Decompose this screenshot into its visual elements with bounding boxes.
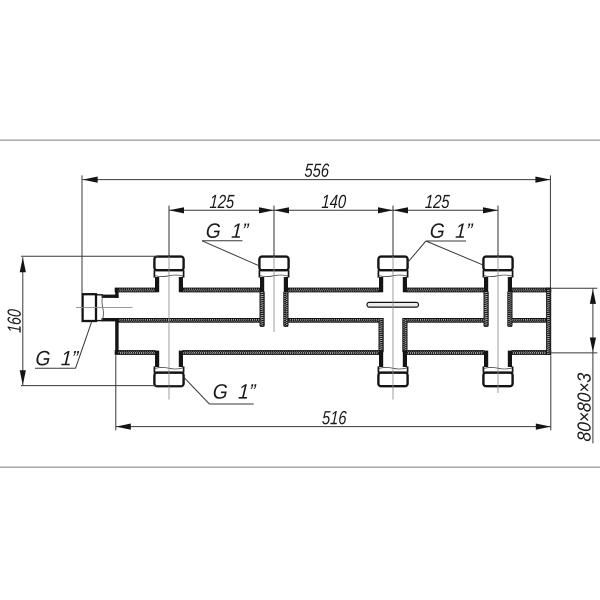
port 2 tube through upper chamber bbox=[260, 291, 288, 326]
extension line port 3 bbox=[392, 206, 394, 257]
dimension text 125 left bbox=[210, 195, 235, 208]
dimension 160 line bbox=[22, 257, 24, 385]
body left wall upper part bbox=[115, 288, 118, 298]
top wall segment B bbox=[183, 288, 260, 292]
chain arrow at port 1 bbox=[169, 207, 184, 213]
bottom wall segment D bbox=[512, 351, 551, 355]
label G1 bottom underline bbox=[209, 403, 253, 405]
chain arrow at port 4 bbox=[483, 207, 498, 213]
port 1 top tube wall bbox=[155, 277, 183, 292]
side port thread section outline bbox=[96, 295, 104, 321]
label G1 top-right underline bbox=[426, 240, 466, 242]
port 3 bottom tube stub bbox=[379, 351, 407, 367]
dimension 160 text bbox=[7, 309, 20, 333]
dimension 160 bottom extension bbox=[21, 385, 183, 387]
bottom wall segment C bbox=[407, 351, 484, 355]
port 4 top coupling cap bbox=[483, 257, 512, 278]
centerline port 4 bbox=[497, 256, 499, 393]
top wall segment D bbox=[407, 288, 484, 292]
dimension 80x80x3 top arrow bbox=[590, 289, 596, 304]
label G1 top-right leader to port 4 bbox=[426, 241, 483, 265]
port 2 top tube stub bbox=[260, 277, 288, 292]
dimension 556 line bbox=[83, 179, 551, 181]
label G1 left underline bbox=[35, 367, 76, 369]
port 3 bottom coupling cap bbox=[378, 366, 407, 386]
chain arrows at port 3 bbox=[378, 207, 393, 213]
label G1 left text bbox=[36, 351, 79, 366]
middle partition segment D bbox=[512, 319, 547, 323]
page divider bottom bbox=[0, 467, 600, 468]
dimension 516 text bbox=[322, 411, 347, 424]
port 3 tube through lower chamber bbox=[379, 319, 407, 352]
bottom wall segment B bbox=[183, 351, 379, 355]
label G1 bottom leader bbox=[184, 377, 210, 404]
page divider top bbox=[0, 140, 600, 141]
dimension 160 top arrow bbox=[20, 257, 26, 272]
chain dimension line bbox=[169, 209, 498, 211]
port 1 bottom coupling cap bbox=[154, 366, 183, 386]
top wall segment C bbox=[288, 288, 379, 292]
dimension 80x80x3 bottom arrow bbox=[590, 338, 596, 353]
dimension 160 top extension bbox=[21, 255, 159, 257]
dimension 556 right arrow bbox=[535, 177, 550, 183]
dimension 556 right extension bbox=[549, 175, 551, 287]
label G1 bottom text bbox=[213, 384, 256, 399]
label G1 top-left underline bbox=[202, 240, 243, 242]
bottom wall segment A bbox=[115, 351, 155, 355]
port 4 bottom tube wall bbox=[484, 351, 512, 367]
baffle plate in upper chamber at port 3 bbox=[367, 302, 419, 307]
dimension 516 right arrow bbox=[536, 424, 551, 430]
dimension text 140 bbox=[322, 195, 347, 208]
extension line port 4 bbox=[497, 206, 499, 257]
dimension 80x80x3 line bbox=[592, 289, 594, 444]
dimension 556 left extension bbox=[81, 175, 83, 293]
side port pipe bottom wall bbox=[102, 318, 119, 321]
extension line port 2 bbox=[273, 206, 275, 257]
dimension 80x80x3 top extension bbox=[551, 287, 597, 289]
dimension 160 bottom arrow bbox=[20, 370, 26, 385]
side port pipe top wall bbox=[102, 295, 119, 298]
port 2 top coupling cap bbox=[259, 257, 288, 278]
middle partition segment C bbox=[407, 319, 484, 323]
dimension 516 left extension bbox=[115, 355, 117, 430]
top wall segment A bbox=[115, 288, 155, 292]
centerline port 3 bbox=[392, 256, 394, 399]
centerline port 1 bbox=[168, 256, 170, 399]
label G1 top-left leader bbox=[202, 241, 258, 265]
dimension 516 right extension bbox=[550, 355, 552, 430]
dimension 556 text bbox=[305, 164, 330, 177]
chain arrows at port 2 bbox=[259, 207, 274, 213]
dimension 556 left arrow bbox=[83, 177, 98, 183]
port 3 top tube wall bbox=[379, 277, 407, 292]
dimension 516 line bbox=[116, 426, 551, 428]
dimension 516 left arrow bbox=[116, 424, 131, 430]
label G1 top-right text bbox=[430, 223, 473, 238]
port 1 top coupling cap bbox=[154, 257, 183, 278]
label G1 top-right leader to port 3 bbox=[408, 241, 426, 263]
centerline side port G1 bbox=[76, 306, 133, 308]
centerline port 2 bbox=[273, 256, 275, 332]
port 4 tube through upper chamber bbox=[484, 291, 512, 326]
body left wall lower part bbox=[115, 318, 118, 354]
port 3 top coupling cap bbox=[378, 257, 407, 278]
extension line port 1 bbox=[168, 206, 170, 257]
middle partition segment B bbox=[288, 319, 379, 323]
port 4 top tube stub bbox=[484, 277, 512, 292]
body right wall bbox=[547, 288, 551, 354]
dimension 80x80x3 text bbox=[577, 373, 590, 442]
middle partition segment A bbox=[119, 319, 260, 323]
side port hex body bbox=[83, 294, 96, 321]
port 1 bottom tube wall bbox=[155, 351, 183, 367]
dimension text 125 right bbox=[425, 195, 450, 208]
port 4 bottom coupling cap bbox=[483, 366, 512, 386]
top wall segment E bbox=[512, 288, 551, 292]
label G1 top-left text bbox=[206, 223, 249, 238]
dimension 80x80x3 bottom extension bbox=[551, 352, 597, 354]
label G1 left leader bbox=[76, 322, 92, 368]
